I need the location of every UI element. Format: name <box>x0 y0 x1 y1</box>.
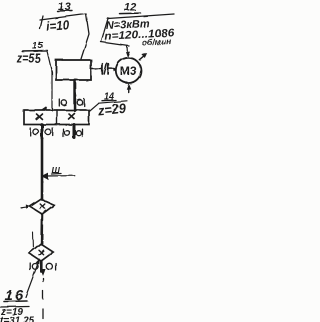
svg-text:15: 15 <box>32 40 44 50</box>
svg-text:z=29: z=29 <box>96 101 127 119</box>
svg-text:13: 13 <box>58 1 71 13</box>
svg-text:t=31,25: t=31,25 <box>0 316 35 322</box>
svg-text:М3: М3 <box>120 64 137 78</box>
svg-text:12: 12 <box>124 2 136 14</box>
svg-text:16: 16 <box>5 287 26 304</box>
svg-text:z=55: z=55 <box>16 50 41 65</box>
svg-text:об/мин: об/мин <box>142 36 172 48</box>
svg-text:i=10: i=10 <box>46 17 71 34</box>
svg-text:14: 14 <box>104 92 114 103</box>
svg-text:Ш: Ш <box>52 165 61 175</box>
